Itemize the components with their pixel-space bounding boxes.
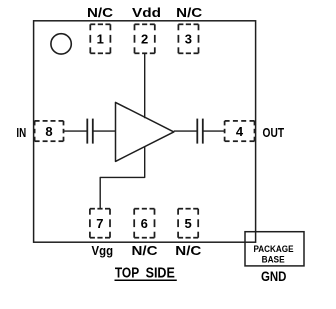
capacitor C1 (input DC block) bbox=[87, 119, 93, 144]
package body outline bbox=[34, 21, 256, 242]
svg-text:6: 6 bbox=[141, 216, 148, 231]
pin 8 pad (dashed) bbox=[35, 121, 64, 141]
pin 2 pad (dashed) bbox=[135, 24, 155, 53]
wire Vgg: amp bottom edge down, left, down to pin 7 bbox=[100, 147, 145, 209]
wire: amp output to output capacitor bbox=[174, 130, 198, 132]
svg-text:OUT: OUT bbox=[263, 125, 285, 140]
svg-text:N/C: N/C bbox=[175, 243, 202, 258]
wire: input capacitor to amp input bbox=[93, 130, 116, 132]
wire: output capacitor to pin 4 bbox=[203, 130, 225, 132]
pin 3 pad (dashed) bbox=[178, 24, 198, 53]
svg-text:8: 8 bbox=[45, 124, 52, 139]
svg-text:4: 4 bbox=[236, 124, 244, 139]
svg-text:Vgg: Vgg bbox=[92, 243, 114, 258]
svg-text:IN: IN bbox=[16, 125, 26, 140]
pin 1 indicator circle bbox=[51, 34, 71, 54]
wire Vdd: pin 2 down to amp top edge bbox=[144, 53, 146, 118]
pin 5 pad (dashed) bbox=[178, 209, 198, 238]
op-amp amplifier triangle U1 bbox=[116, 102, 174, 161]
svg-text:GND: GND bbox=[261, 268, 287, 284]
pin 6 pad (dashed) bbox=[134, 209, 154, 238]
svg-text:1: 1 bbox=[97, 32, 104, 47]
svg-text:N/C: N/C bbox=[176, 5, 203, 20]
svg-text:PACKAGE: PACKAGE bbox=[254, 243, 294, 254]
svg-text:5: 5 bbox=[184, 216, 191, 231]
svg-text:BASE: BASE bbox=[262, 254, 285, 265]
pin 7 pad (dashed) bbox=[90, 209, 110, 238]
svg-text:N/C: N/C bbox=[87, 5, 114, 20]
svg-text:Vdd: Vdd bbox=[132, 5, 161, 20]
svg-text:2: 2 bbox=[141, 32, 148, 47]
svg-text:TOP: TOP bbox=[115, 266, 140, 282]
capacitor C2 (output DC block) bbox=[197, 119, 203, 144]
svg-text:3: 3 bbox=[185, 32, 192, 47]
pin 4 pad (dashed) bbox=[225, 121, 255, 141]
svg-text:7: 7 bbox=[96, 216, 103, 231]
pin 1 pad (dashed) bbox=[90, 24, 110, 53]
title underline bbox=[115, 279, 177, 281]
svg-text:SIDE: SIDE bbox=[146, 266, 175, 282]
svg-text:N/C: N/C bbox=[132, 243, 159, 258]
package base box bbox=[245, 232, 304, 266]
wire: pin 8 to input capacitor bbox=[64, 130, 88, 132]
